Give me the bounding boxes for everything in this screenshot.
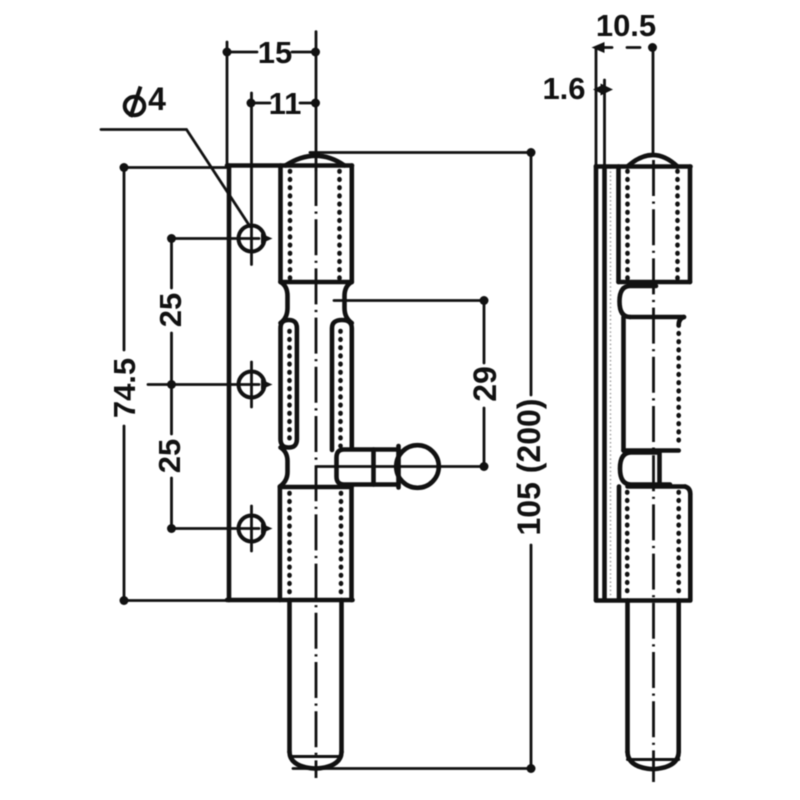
screw hole 2 arrow [261,380,273,390]
side crimp tab2 capsule [620,453,670,485]
dim 15 dots [223,48,232,57]
dim 29 extension top [334,299,484,302]
side section3 right corner arc [685,487,690,495]
dim 29 line [483,301,486,467]
lower barrel left edge [278,487,283,601]
dim 25a line [170,239,173,385]
side faint dotted line [610,168,612,598]
bolt pin left edge [287,600,292,752]
bolt pin tip chord [290,755,342,758]
svg-text:105 (200): 105 (200) [511,399,547,536]
dim 10.5 extension left [595,48,598,167]
barrel section1 bottom edge [281,280,352,285]
dim 11 line [251,102,316,105]
front centerline solid top extension [315,32,318,170]
left capsule hidden dotted [287,331,292,440]
plate left edge [227,166,232,601]
screw hole 3 vertical line [250,506,253,551]
dim 74.5 dots [120,163,129,172]
dim 105 top extension [310,151,531,154]
side hidden dotted right sec1 [675,171,680,279]
knob head circle [396,445,439,488]
svg-text:4: 4 [148,81,166,117]
lower barrel top edge [280,485,352,490]
dim 10.5 dots [592,42,605,53]
svg-text:10.5: 10.5 [596,8,656,43]
screw hole 3 [239,516,265,542]
side mid section bottom edge [624,448,679,453]
left guide capsule [281,320,297,448]
svg-text:29: 29 [467,366,503,402]
dim 29 dots [480,296,489,305]
barrel section1 right edge [349,166,354,283]
dim 25b line [170,385,173,529]
side bottom edge [596,598,690,603]
dim 1.6 arrows [593,84,606,96]
right guide capsule [332,320,352,450]
side section3 hidden dotted left [625,492,630,597]
bolt pin right edge [339,600,344,752]
dim 74.5 line [123,168,126,601]
side centerline top extension [652,48,655,155]
knob divider line [371,450,376,485]
side tab1 bottom / mid section top edge [630,315,684,320]
lower barrel right edge [349,486,354,601]
bolt pin tip arc [290,752,342,769]
dim 74.5 bottom extension [124,599,229,602]
bolt hidden edge left (dotted) section1 [288,171,293,279]
side hidden dotted left sec1 [625,171,630,279]
svg-text:15: 15 [258,35,292,70]
dim 15 extension left [226,42,229,166]
side plate front edge [602,166,607,600]
side barrel sec1 right edge [688,167,693,283]
svg-text:1.6: 1.6 [542,71,585,106]
side pin tip chord [628,758,679,761]
side section3 top edge [628,484,686,489]
screw hole 1 [239,226,265,252]
knob centerline [317,465,484,468]
side plate back edge [594,166,599,600]
neck left hourglass [281,282,288,323]
side top edge [596,164,691,169]
side crimp tab1 capsule [620,286,657,317]
side section3 left edge [617,487,622,601]
dim 105 line [530,153,533,769]
lower barrel hidden dotted left [287,493,292,597]
dim 105 dots [527,148,536,157]
side knob edge-on line [657,453,662,485]
screw hole 1 vertical line [250,93,253,265]
screw hole 2 horizontal line [148,383,259,386]
screw hole 1 horizontal line [172,237,260,240]
front centerline dash-dot [315,170,318,778]
dim 74.5 top extension [124,166,227,169]
screw hole 1 arrow [261,234,273,244]
screw hole 2 vertical line [250,362,253,407]
side pin tip arc [628,752,679,769]
bolt hidden edge right (dotted) section1 [337,171,342,279]
dim 11 dots [247,99,256,108]
side barrel sec1 left edge [616,167,621,283]
svg-text:11: 11 [269,86,302,121]
screw hole 3 horizontal line [172,527,260,530]
side mid section right hidden dashed [676,325,681,445]
dim 10.5 line [596,46,640,49]
side pin right edge [676,601,681,753]
dim 25 dots [167,234,176,243]
svg-text:74.5: 74.5 [107,358,142,418]
phi4 leader line [101,130,250,227]
lower barrel hidden dotted right [339,493,344,597]
knob head chord [396,446,401,488]
barrel section1 left edge [278,166,283,283]
side pin left edge [625,601,630,753]
dim 1.6 extension right line [603,80,606,166]
right capsule hidden dotted [338,331,343,446]
plate top edge [227,163,352,168]
side section3 right edge [688,494,693,600]
side section3 hidden dotted right [676,492,681,597]
svg-text:25: 25 [152,439,187,473]
side centerline dash-dot [652,160,655,782]
bolt cap arc top [286,156,345,166]
side mid section right corner arc [679,317,684,325]
side mid section left edge [621,317,626,451]
screw hole 2 [239,372,265,398]
svg-text:25: 25 [153,293,188,327]
screw hole 3 arrow [261,524,273,534]
label phi4 [125,87,145,118]
lower neck left hourglass [280,448,288,487]
knob body outline [337,450,399,485]
dim 15 line [227,51,316,54]
plate bottom edge [227,598,353,603]
side barrel sec1 bottom edge [619,280,691,285]
neck right hourglass [345,282,352,323]
side cap arc [628,155,678,167]
dim 105 bottom extension [293,767,531,770]
